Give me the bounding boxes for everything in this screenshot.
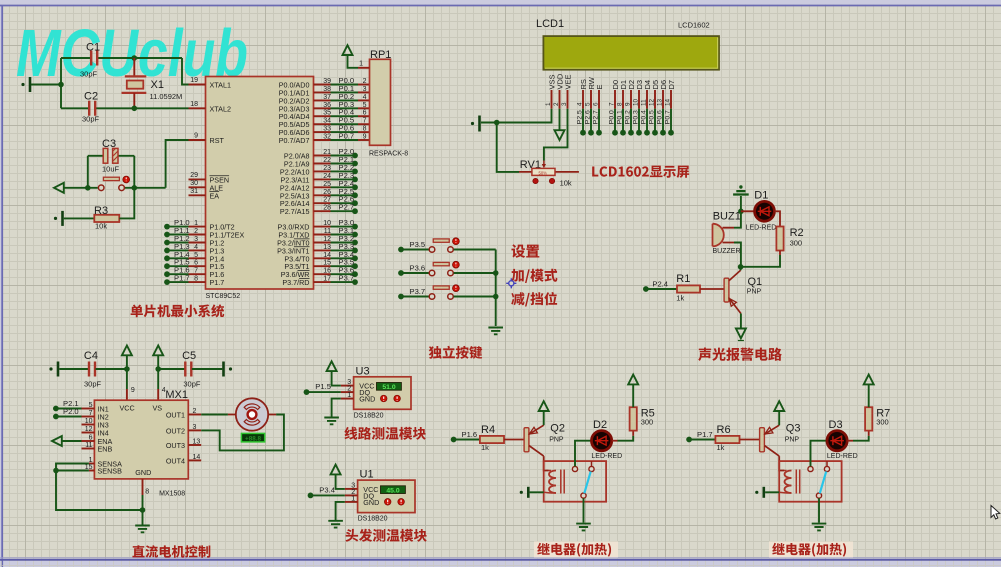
pin SENSA (1) MX1 — [89, 463, 95, 465]
wire — [646, 288, 677, 290]
wire — [158, 368, 184, 370]
svg-text:X1: X1 — [151, 79, 164, 91]
wire — [765, 491, 779, 493]
svg-text:P0.7: P0.7 — [339, 132, 355, 141]
ground (U1) — [328, 521, 343, 528]
svg-text:P1.5: P1.5 — [315, 382, 331, 391]
ground (relay contact) — [812, 524, 827, 531]
svg-text:LCD1602: LCD1602 — [678, 21, 710, 30]
svg-text:300: 300 — [876, 418, 889, 427]
svg-text:11.0592M: 11.0592M — [150, 92, 183, 101]
net P1.6 — [451, 437, 457, 443]
svg-text:P0.2: P0.2 — [624, 110, 631, 124]
svg-text:MX1508: MX1508 — [159, 491, 185, 498]
svg-text:3: 3 — [561, 102, 568, 106]
svg-text:PNP: PNP — [549, 437, 564, 444]
svg-text:10k: 10k — [95, 222, 107, 231]
wire R3 to reset node — [119, 188, 134, 219]
transistor Q2 PNP — [524, 428, 529, 452]
wire — [336, 474, 345, 489]
power terminal VCC (MX1) — [122, 346, 132, 356]
svg-text:12: 12 — [323, 236, 331, 243]
pin P3.5 (15) net label P3.5 — [314, 265, 331, 267]
svg-text:1k: 1k — [717, 443, 725, 452]
svg-text:P0.7/AD7: P0.7/AD7 — [279, 136, 310, 145]
svg-text:9: 9 — [131, 387, 135, 394]
svg-text:18: 18 — [190, 101, 198, 108]
svg-text:DS18B20: DS18B20 — [354, 412, 384, 419]
svg-text:14: 14 — [323, 252, 331, 259]
svg-text:5: 5 — [89, 402, 93, 409]
svg-text:VS: VS — [153, 404, 163, 413]
pin P2.3/A11 (24) net label P2.3 — [314, 178, 331, 180]
svg-text:OUT3: OUT3 — [166, 441, 185, 450]
wire XTAL1 net — [182, 58, 189, 85]
net P1.7 — [686, 437, 692, 443]
svg-text:P2.5: P2.5 — [576, 110, 583, 124]
power terminal (U3 VCC) — [327, 361, 337, 371]
wire GND U3 — [332, 399, 341, 417]
pin P3.2 (12) net label P3.2 — [314, 242, 331, 244]
pin P2.4/A12 (25) net label P2.4 — [314, 186, 331, 188]
svg-text:P2.0: P2.0 — [63, 407, 79, 416]
svg-text:14: 14 — [193, 454, 201, 461]
pushbutton P3.5 (设置) — [398, 247, 404, 253]
svg-text:R6: R6 — [717, 424, 731, 436]
svg-text:1: 1 — [359, 61, 363, 68]
svg-text:SENSB: SENSB — [98, 467, 123, 476]
svg-text:33: 33 — [323, 126, 331, 133]
wire emitter to ground — [740, 314, 742, 329]
wire VEE to RV1 wiper — [544, 109, 568, 161]
pin GND (1) U3 — [341, 398, 354, 400]
motor (DC motor) — [236, 398, 268, 430]
wire RST net — [166, 140, 189, 188]
svg-text:P3.7/RD: P3.7/RD — [282, 278, 309, 287]
svg-text:VCC: VCC — [120, 404, 135, 413]
pin IN1 (5) MX1 — [82, 408, 95, 410]
relay (coil + contacts) — [779, 461, 841, 502]
power bar terminal (buzzer top) — [739, 185, 742, 188]
svg-text:D2: D2 — [593, 419, 607, 431]
resistor R5 300 — [630, 407, 637, 430]
svg-text:C5: C5 — [182, 350, 196, 362]
pin IN4 (12) MX1 — [82, 432, 95, 434]
svg-text:D7: D7 — [667, 80, 676, 90]
pin OUT4 (14) MX1 — [188, 459, 201, 461]
relay contacts — [808, 466, 813, 471]
svg-text:9: 9 — [194, 133, 198, 140]
svg-text:30pF: 30pF — [183, 380, 201, 389]
wire OUT2 to motor (loop) — [201, 415, 284, 451]
relay blade (cyan) — [584, 472, 590, 494]
resistor R6 1k — [715, 436, 739, 443]
svg-text:STC89C52: STC89C52 — [206, 293, 241, 300]
svg-text:C1: C1 — [86, 42, 100, 54]
pin P0.2/AD2 (37) wire to RP1 pin 4, net P0.2 — [314, 99, 331, 101]
buzzer pins — [723, 228, 735, 243]
wire C3 sides — [87, 156, 89, 188]
svg-text:D3: D3 — [829, 419, 843, 431]
wire R6 to Q3 base — [740, 439, 761, 441]
crystal X1 11.0592M — [133, 58, 135, 76]
pushbutton P3.7 (减/挡位) — [398, 294, 404, 300]
svg-text:2: 2 — [363, 78, 367, 85]
svg-text:24: 24 — [323, 173, 331, 180]
pin P1.4 (5) with net label P1.4 — [189, 257, 206, 259]
wire D2 to resistor — [612, 440, 618, 442]
power terminal (R7 top) — [868, 385, 870, 408]
junction — [493, 270, 499, 276]
pin IN2 (7) MX1 — [82, 416, 95, 418]
svg-text:36: 36 — [323, 102, 331, 109]
svg-text:5: 5 — [363, 102, 367, 109]
net P2.4 start — [643, 286, 649, 292]
svg-text:26: 26 — [323, 189, 331, 196]
svg-text:9: 9 — [363, 134, 367, 141]
pin GND(8) MX1 — [142, 479, 144, 495]
svg-text:19: 19 — [190, 77, 198, 84]
svg-text:7: 7 — [608, 102, 615, 106]
svg-text:6: 6 — [194, 260, 198, 267]
svg-text:1: 1 — [351, 495, 355, 502]
relay (coil + contacts) — [544, 461, 606, 502]
svg-text:ENB: ENB — [98, 445, 113, 454]
junction — [85, 185, 91, 191]
caption 声光报警电路 — [698, 348, 782, 361]
svg-text:XTAL1: XTAL1 — [210, 81, 231, 90]
svg-text:11: 11 — [85, 442, 92, 449]
svg-text:4: 4 — [363, 94, 367, 101]
junction VSS/RV1 — [494, 120, 500, 126]
svg-text:R3: R3 — [94, 205, 108, 217]
wire collector to relay coil — [779, 456, 784, 470]
svg-text:P3.5: P3.5 — [410, 240, 426, 249]
svg-text:6: 6 — [592, 102, 599, 106]
pin P3.7 (17) net label P3.7 — [314, 281, 331, 283]
ground (relay contact) — [576, 524, 591, 531]
svg-text:Q3: Q3 — [786, 423, 801, 435]
svg-text:1: 1 — [194, 220, 198, 227]
svg-text:30pF: 30pF — [80, 70, 98, 79]
svg-text:GND: GND — [363, 498, 379, 507]
svg-text:6: 6 — [363, 110, 367, 117]
pin OUT3 (13) MX1 — [188, 444, 201, 446]
svg-text:10: 10 — [85, 418, 93, 425]
svg-text:4: 4 — [576, 102, 583, 106]
svg-text:R1: R1 — [676, 273, 690, 285]
svg-text:RP1: RP1 — [370, 49, 391, 61]
junction D1/BUZ1 — [738, 209, 744, 215]
op-amp U? : MCU STC89C52 body — [206, 77, 314, 290]
svg-text:GND: GND — [135, 468, 151, 477]
net P2.1 to IN1 — [53, 406, 59, 412]
RV1 adjust buttons — [533, 178, 538, 183]
svg-text:12: 12 — [85, 426, 93, 433]
power terminal (left arrow) — [54, 183, 64, 193]
terminal (C5 right) — [222, 362, 225, 377]
svg-text:3: 3 — [194, 236, 198, 243]
svg-text:XTAL2: XTAL2 — [210, 104, 231, 113]
power terminal (R5 top) — [632, 385, 634, 408]
svg-text:Q1: Q1 — [748, 276, 763, 288]
svg-text:PNP: PNP — [747, 289, 762, 296]
svg-text:LCD1: LCD1 — [536, 18, 564, 30]
junction — [124, 366, 130, 372]
svg-text:3: 3 — [363, 86, 367, 93]
svg-text:30pF: 30pF — [82, 115, 100, 124]
pin P0.4/AD4 (35) wire to RP1 pin 6, net P0.4 — [314, 115, 331, 117]
junction — [155, 366, 161, 372]
pin P3.3 (13) net label P3.3 — [314, 249, 331, 251]
junction — [132, 185, 138, 191]
svg-text:8: 8 — [616, 102, 623, 106]
svg-text:45.0: 45.0 — [386, 487, 399, 494]
svg-text:5: 5 — [584, 102, 591, 106]
svg-text:34: 34 — [323, 118, 331, 125]
pin EA (31) — [189, 194, 206, 196]
power terminal (ENA left arrow) — [52, 436, 62, 446]
pin P3.6 (16) net label P3.6 — [314, 273, 331, 275]
pin P1.1/T2EX (2) with net label P1.1 — [189, 234, 206, 236]
power terminal down (VDD) — [559, 109, 561, 131]
svg-text:13: 13 — [656, 98, 663, 106]
pin XTAL1 (19) — [189, 84, 206, 86]
svg-text:300: 300 — [790, 239, 803, 248]
svg-text:14: 14 — [664, 98, 671, 106]
pin OUT1 (2) MX1 — [188, 414, 201, 416]
temperature sensor U3 DS18B20 — [354, 377, 411, 410]
temperature sensor U1 DS18B20 — [358, 480, 415, 512]
junction — [493, 294, 499, 300]
pin DQ (2) U1 — [345, 494, 358, 496]
junction crystal bottom — [132, 106, 138, 112]
svg-text:P2.6: P2.6 — [584, 110, 591, 124]
caption 头发测温模块 — [345, 529, 426, 542]
svg-text:2: 2 — [194, 228, 198, 235]
power terminal (U1 VCC) — [331, 465, 341, 475]
svg-text:BUZ1: BUZ1 — [713, 211, 741, 223]
wire contact C to ground — [583, 498, 585, 522]
pushbutton reset — [98, 185, 104, 191]
pin P0.3/AD3 (36) wire to RP1 pin 5, net P0.3 — [314, 107, 331, 109]
wire collector — [740, 267, 742, 271]
ground (buttons) — [488, 328, 503, 335]
svg-text:P3.4: P3.4 — [319, 485, 335, 494]
pin 1 of RP1 with power terminal — [358, 67, 370, 69]
svg-text:P2.7/A15: P2.7/A15 — [280, 207, 310, 216]
pin SENSB (15) MX1 — [89, 470, 95, 472]
pin ENA (6) MX1 — [82, 440, 95, 442]
ground (MX1) — [135, 526, 150, 533]
svg-text:OUT1: OUT1 — [166, 411, 185, 420]
junction collector — [738, 264, 744, 270]
pin RST (9) — [189, 139, 206, 141]
svg-text:R4: R4 — [481, 424, 495, 436]
pin P0.0/AD0 (39) wire to RP1 pin 2, net P0.0 — [314, 84, 331, 86]
svg-text:30: 30 — [190, 180, 198, 187]
svg-text:P0.1: P0.1 — [616, 110, 623, 124]
wire D3 to resistor — [847, 440, 853, 442]
svg-text:27: 27 — [323, 197, 331, 204]
wire — [689, 439, 715, 441]
caption LCD1602显示屏 — [592, 166, 689, 178]
svg-text:P3.7: P3.7 — [410, 287, 426, 296]
pin P2.7/A15 (28) net label P2.7 — [314, 210, 331, 212]
svg-text:U1: U1 — [360, 469, 374, 481]
relay blade (cyan) — [820, 472, 826, 494]
power terminal (Q2 emitter) — [543, 411, 545, 425]
wire to bus — [454, 272, 496, 274]
svg-text:8: 8 — [145, 489, 149, 496]
svg-text:P1.7: P1.7 — [697, 430, 713, 439]
pin P0.1/AD1 (38) wire to RP1 pin 3, net P0.1 — [314, 91, 331, 93]
svg-text:LED-RED: LED-RED — [591, 453, 622, 460]
power terminal (Q3 emitter) — [778, 411, 780, 425]
svg-text:12: 12 — [648, 98, 655, 106]
svg-text:C2: C2 — [84, 91, 98, 103]
svg-text:P2.7: P2.7 — [592, 110, 599, 124]
pin P2.5/A13 (26) net label P2.5 — [314, 194, 331, 196]
svg-text:9: 9 — [624, 102, 631, 106]
wire RV1 left — [497, 123, 519, 172]
wire — [740, 196, 742, 211]
svg-text:LED-RED: LED-RED — [746, 225, 777, 232]
svg-text:25: 25 — [323, 181, 331, 188]
wire — [530, 491, 544, 493]
wire — [31, 84, 61, 86]
svg-text:2: 2 — [193, 408, 197, 415]
net P2.0 to IN2 — [53, 414, 59, 420]
pin P0.5/AD5 (34) wire to RP1 pin 7, net P0.5 — [314, 123, 331, 125]
net P1.5 to DQ — [304, 389, 310, 395]
junction crystal top — [132, 55, 138, 61]
svg-text:16: 16 — [323, 268, 331, 275]
svg-text:OUT2: OUT2 — [166, 426, 185, 435]
pin ENB (11) MX1 — [82, 448, 95, 450]
pin OUT2 (3) MX1 — [188, 429, 201, 431]
svg-text:C3: C3 — [102, 138, 116, 150]
pin VCC (3) U1 — [345, 488, 358, 490]
svg-text:51.0: 51.0 — [382, 384, 395, 391]
svg-text:RESPACK-8: RESPACK-8 — [369, 151, 408, 158]
svg-text:BUZZER: BUZZER — [713, 248, 741, 255]
svg-text:8: 8 — [194, 276, 198, 283]
junction — [140, 507, 146, 513]
svg-text:31: 31 — [190, 188, 198, 195]
svg-text:4: 4 — [194, 244, 198, 251]
svg-text:11: 11 — [324, 228, 331, 235]
caption 继电器(加热) 1 — [534, 542, 618, 558]
wire reset row — [63, 187, 98, 189]
svg-text:21: 21 — [323, 149, 331, 156]
transistor Q3 PNP — [760, 428, 765, 452]
wire VSS to ground — [481, 109, 552, 123]
wire R1 to Q1 base — [700, 288, 725, 290]
U3 temperature display — [377, 383, 402, 391]
pin P1.7 (8) with net label P1.7 — [189, 281, 206, 283]
pin PSEN (29) — [189, 178, 206, 180]
svg-text:22: 22 — [323, 157, 331, 164]
pin P0.7/AD7 (32) wire to RP1 pin 9, net P0.7 — [314, 139, 331, 141]
wire to bus — [454, 296, 496, 298]
U3 up/down buttons — [380, 395, 387, 402]
capacitor C1 — [61, 57, 90, 59]
power terminal VS (MX1) — [153, 346, 163, 356]
pin ALE (30) — [189, 186, 206, 188]
svg-text:1: 1 — [347, 392, 351, 399]
svg-text:7: 7 — [363, 118, 367, 125]
svg-text:3: 3 — [193, 424, 197, 431]
svg-text:10: 10 — [323, 220, 331, 227]
svg-text:P0.5: P0.5 — [648, 110, 655, 124]
relay contacts — [572, 466, 577, 471]
svg-text:300: 300 — [641, 418, 654, 427]
ground (arrow) under Q1 — [736, 329, 746, 339]
wire D1 to R2 — [774, 211, 780, 226]
wire contact C to ground — [818, 498, 820, 522]
svg-text:1k: 1k — [481, 443, 489, 452]
node junction — [58, 82, 64, 88]
svg-text:EA: EA — [210, 191, 220, 200]
svg-text:P1.7: P1.7 — [210, 278, 225, 287]
svg-text:OUT4: OUT4 — [166, 456, 185, 465]
svg-text:P0.0: P0.0 — [608, 110, 615, 124]
terminal GND (crystal block) — [29, 77, 32, 92]
pin P1.2 (3) with net label P1.2 — [189, 242, 206, 244]
svg-text:35: 35 — [323, 110, 331, 117]
resistor R4 1k — [480, 436, 504, 443]
pin P0.6/AD6 (33) wire to RP1 pin 8, net P0.6 — [314, 131, 331, 133]
svg-text:D1: D1 — [754, 189, 768, 201]
svg-text:E: E — [595, 84, 604, 89]
svg-text:+88.8: +88.8 — [245, 435, 261, 442]
svg-text:2: 2 — [553, 102, 560, 106]
net P3.4 to DQ — [308, 493, 314, 499]
pin P2.6/A14 (27) net label P2.6 — [314, 202, 331, 204]
svg-text:PNP: PNP — [785, 437, 800, 444]
svg-text:1: 1 — [545, 102, 552, 106]
wire vertical — [60, 58, 62, 108]
caption 线路测温模块 — [344, 427, 425, 440]
pin P2.0/A8 (21) net label P2.0 — [314, 155, 331, 157]
wire R4 to Q2 base — [504, 439, 525, 441]
caption 直流电机控制 — [132, 545, 210, 558]
svg-text:P0.4: P0.4 — [640, 110, 647, 124]
pin P1.5 (6) with net label P1.5 — [189, 265, 206, 267]
svg-text:1k: 1k — [676, 294, 684, 303]
svg-text:P3.6: P3.6 — [410, 264, 426, 273]
svg-text:8: 8 — [363, 126, 367, 133]
svg-text:13: 13 — [193, 439, 201, 446]
svg-text:7: 7 — [194, 268, 198, 275]
motor rpm display — [241, 433, 264, 442]
svg-text:R2: R2 — [790, 227, 804, 239]
svg-text:28: 28 — [323, 205, 331, 212]
pin VS(4) MX1 — [157, 369, 159, 389]
caption 独立按键 — [429, 346, 483, 359]
svg-text:MX1: MX1 — [165, 389, 188, 401]
svg-text:10k: 10k — [560, 179, 572, 188]
wire SENSA/SENSB to GND — [56, 464, 143, 511]
wire R2 bottom to collector node — [779, 251, 781, 256]
wire GND U1 — [336, 502, 345, 520]
svg-text:29: 29 — [190, 172, 198, 179]
terminal GND (relay coil) — [527, 487, 530, 498]
svg-text:13: 13 — [323, 244, 331, 251]
wire collector to relay coil — [544, 456, 549, 470]
svg-text:LED-RED: LED-RED — [827, 453, 858, 460]
